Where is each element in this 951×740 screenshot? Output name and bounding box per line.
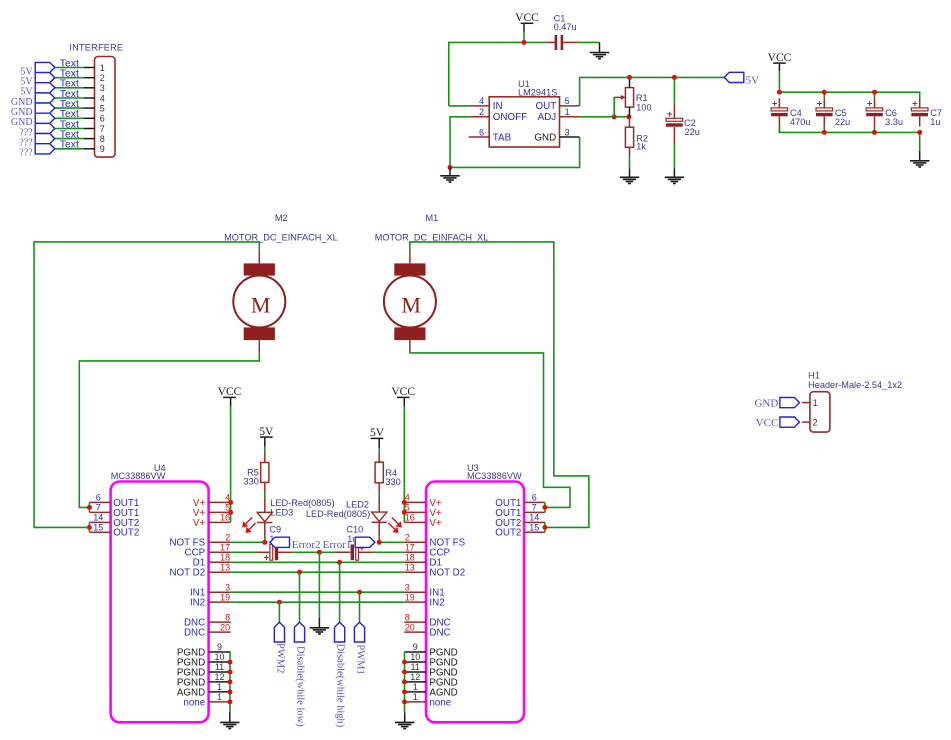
svg-text:4: 4: [100, 93, 105, 103]
svg-text:5V: 5V: [259, 426, 274, 438]
svg-text:20: 20: [220, 622, 230, 632]
R1 junction top: [627, 75, 632, 80]
H1 pin numbers: [813, 398, 818, 428]
svg-text:DNC: DNC: [429, 628, 450, 639]
junction PWM_DIS2 tap: [297, 570, 302, 575]
U3 PGND chain wire: [404, 652, 406, 712]
wire R5 to LED3: [264, 492, 266, 499]
svg-text:VCC: VCC: [756, 417, 779, 429]
wires to INTERFERE pins: [55, 68, 84, 149]
H1 pin stubs: [802, 403, 810, 423]
svg-text:GND: GND: [534, 132, 556, 143]
ground at U3 PGND: [395, 722, 414, 728]
net flag pin 1 net: [35, 62, 55, 72]
U3 OUT1 tie wire: [544, 502, 546, 512]
svg-text:DNC: DNC: [184, 628, 205, 639]
net flag pin 8 net: [35, 134, 55, 144]
op-amp U1 LM2941S body: [489, 97, 559, 147]
net flag pin 6 net: [35, 113, 55, 123]
wire M1 top to U3 OUT2: [410, 242, 589, 528]
junction C2 top: [672, 75, 677, 80]
svg-text:IN2: IN2: [190, 598, 205, 609]
svg-text:LM2941S: LM2941S: [518, 88, 557, 98]
wire ONOFF to gnd rail: [450, 117, 469, 168]
svg-text:3.3u: 3.3u: [885, 117, 903, 127]
junction PWM1 tap: [357, 590, 362, 595]
wire C6 bottom pin: [874, 127, 876, 133]
wire GND pin to gnd rail: [450, 137, 580, 167]
net flag PWM_DIS2: [294, 622, 304, 642]
junction V+ pin 5: [228, 510, 233, 515]
wire ADJ row: [580, 116, 629, 118]
svg-text:OUT: OUT: [536, 101, 557, 112]
svg-text:18: 18: [220, 552, 230, 562]
junction VCC/input: [522, 40, 527, 45]
wire PWM_DIS2: [299, 572, 301, 622]
svg-text:M: M: [401, 292, 421, 317]
wire C4 bottom pin: [778, 127, 780, 133]
junction ADJ wiper: [612, 114, 617, 119]
svg-text:IN: IN: [493, 101, 503, 112]
net flag pin 5 net: [35, 103, 55, 113]
svg-text:22u: 22u: [685, 127, 700, 137]
wire PWM2: [278, 602, 280, 622]
junction CCP/gnd tap: [317, 550, 322, 555]
U3 pin stubs: [404, 502, 426, 702]
svg-text:330: 330: [244, 476, 259, 486]
Text labels on nets: [60, 58, 79, 150]
wire LED2 to NOT_FS: [378, 538, 380, 543]
svg-text:PWM1: PWM1: [355, 644, 366, 674]
svg-text:7: 7: [532, 503, 537, 513]
svg-text:LED3: LED3: [270, 507, 293, 517]
U3 pin names: [429, 498, 465, 709]
wire input rail to C1 and IN: [449, 42, 546, 106]
bottom ground rail: [779, 127, 919, 152]
junction NOT_FS / Error2: [262, 540, 267, 545]
svg-text:19: 19: [220, 592, 230, 602]
capacitor C4: [771, 99, 788, 117]
U4 pin numbers: [214, 493, 230, 702]
wire LED3 to NOT_FS: [264, 538, 266, 543]
svg-text:14: 14: [529, 513, 539, 523]
svg-text:M1: M1: [426, 213, 439, 223]
svg-text:16: 16: [405, 513, 415, 523]
svg-text:ONOFF: ONOFF: [493, 112, 527, 123]
LED LED2: [372, 499, 387, 538]
svg-text:17: 17: [220, 543, 230, 553]
svg-text:17: 17: [405, 543, 415, 553]
net flag pin 2 net: [35, 73, 55, 83]
U1 pin names: [493, 101, 556, 143]
svg-text:Disable(while low): Disable(while low): [295, 646, 306, 727]
U4 PGND chain wire: [229, 652, 231, 712]
junction ADJ R1 bottom: [626, 114, 631, 119]
C6 pin wires: [874, 98, 876, 126]
svg-text:OUT2: OUT2: [113, 528, 139, 539]
svg-text:3: 3: [225, 582, 230, 592]
net NOT_FS right wire: [379, 541, 404, 543]
VCC stub: [230, 397, 232, 406]
svg-text:19: 19: [405, 592, 415, 602]
svg-text:2: 2: [479, 107, 484, 117]
C5 pin wires: [823, 98, 825, 126]
wire 5V to R4: [378, 448, 380, 451]
svg-text:5: 5: [565, 96, 570, 106]
svg-text:V+: V+: [193, 518, 206, 529]
svg-text:14: 14: [93, 513, 103, 523]
capacitor C7: [911, 99, 928, 117]
svg-text:22u: 22u: [835, 117, 850, 127]
VCC stub: [403, 397, 405, 406]
svg-text:INTERFERE: INTERFERE: [69, 43, 123, 53]
junction OUT2: [87, 525, 92, 530]
svg-text:Error1: Error1: [323, 539, 352, 551]
connector H1 body: [810, 392, 830, 432]
net IN2 wire: [231, 601, 405, 603]
U4 pin stubs: [209, 502, 231, 702]
net D1 wire: [231, 561, 405, 563]
5V stub: [264, 437, 266, 446]
wire 5V to R5: [264, 447, 266, 452]
wire wiper to ADJ: [614, 97, 616, 116]
wire to ground: [919, 151, 921, 161]
svg-text:none: none: [429, 697, 451, 708]
svg-text:VCC: VCC: [515, 12, 539, 24]
svg-text:3: 3: [565, 127, 570, 137]
VCC stub: [523, 23, 525, 31]
supply symbol 5V (R5): [259, 426, 274, 438]
motor M1 MOTOR_DC_EINFACH_XL: [384, 253, 436, 353]
net flag Error1: [355, 537, 375, 547]
U4 OUT pin numbers: [93, 493, 103, 533]
svg-text:+: +: [772, 99, 778, 110]
VCC top rail: [779, 92, 919, 98]
wire M2 bottom to U4 OUT1: [79, 352, 259, 507]
resistor R2: [625, 117, 633, 158]
motor M2 MOTOR_DC_EINFACH_XL: [233, 253, 285, 353]
junction PWM_DIS1 tap: [337, 560, 342, 565]
net flag VCC (H1): [780, 417, 800, 427]
svg-text:+: +: [867, 99, 873, 110]
svg-text:VCC: VCC: [218, 386, 242, 398]
svg-text:11: 11: [411, 662, 420, 672]
svg-text:6: 6: [479, 127, 484, 137]
svg-text:6: 6: [532, 493, 537, 503]
capacitor C2: [666, 109, 683, 127]
svg-text:2: 2: [405, 533, 410, 543]
svg-text:none: none: [183, 697, 205, 708]
junctions on VCC rail: [777, 90, 877, 95]
svg-text:Header-Male-2.54_1x2: Header-Male-2.54_1x2: [808, 380, 902, 390]
LED2 emission arrows: [388, 517, 401, 532]
wire VCC to U3 V+ pins: [403, 407, 405, 523]
svg-text:IN2: IN2: [429, 598, 444, 609]
net IN1 wire: [231, 591, 405, 593]
svg-text:???: ???: [19, 148, 33, 159]
svg-text:5: 5: [100, 103, 105, 113]
ground at cap bank: [910, 161, 929, 167]
junction V+ pin 5: [402, 510, 407, 515]
wire C5 top pin: [823, 92, 825, 98]
svg-text:2: 2: [100, 73, 105, 83]
svg-text:+: +: [667, 109, 673, 120]
svg-text:LED2: LED2: [346, 500, 369, 510]
junction gnd rail: [448, 165, 453, 170]
U3 pin numbers: [405, 493, 421, 702]
svg-text:13: 13: [405, 562, 415, 572]
net CCP left wire: [231, 551, 258, 553]
svg-text:+: +: [817, 99, 823, 110]
U3 OUT pin names: [495, 498, 521, 539]
net flag pin 9 net: [35, 144, 55, 154]
U3 OUT pin stubs: [524, 502, 545, 532]
capacitor C9: [258, 544, 292, 563]
U4 OUT1 tie wire: [88, 502, 90, 512]
svg-text:+: +: [264, 553, 270, 564]
svg-text:6: 6: [100, 114, 105, 124]
net flag pin 7 net: [35, 123, 55, 133]
ground mid (CCP caps): [310, 628, 329, 634]
svg-text:V+: V+: [429, 518, 442, 529]
svg-text:9: 9: [217, 642, 222, 652]
svg-text:20: 20: [405, 622, 415, 632]
svg-text:3: 3: [100, 83, 105, 93]
svg-text:15: 15: [529, 523, 539, 533]
svg-text:NOT D2: NOT D2: [169, 568, 205, 579]
wire IN pin: [449, 105, 469, 107]
svg-text:Text: Text: [60, 140, 79, 151]
ground at U4 PGND: [220, 722, 239, 728]
svg-text:7: 7: [100, 124, 105, 134]
U3 OUT pin numbers: [529, 493, 539, 533]
net flag Error2: [270, 537, 290, 547]
svg-text:2: 2: [813, 418, 818, 428]
svg-text:12: 12: [410, 672, 420, 682]
supply symbol VCC (cap bank): [768, 52, 792, 64]
net flag PWM1: [354, 622, 364, 642]
5V stub: [378, 438, 380, 448]
supply symbol VCC (above U4): [218, 386, 242, 398]
svg-text:470u: 470u: [790, 117, 810, 127]
svg-text:VCC: VCC: [768, 52, 792, 64]
svg-text:M: M: [251, 292, 271, 317]
svg-text:Disable(while high): Disable(while high): [335, 644, 346, 728]
wire C6 top pin: [874, 92, 876, 98]
svg-text:9: 9: [100, 144, 105, 154]
net NOT_FS left wire: [231, 541, 265, 543]
wire C2 to ground: [673, 127, 675, 143]
svg-text:MC33886VW: MC33886VW: [111, 471, 166, 481]
net name labels 5V/GND/???: [11, 66, 33, 158]
svg-text:TAB: TAB: [493, 132, 512, 143]
wire CCP cap node to ground: [318, 552, 320, 618]
svg-text:100: 100: [636, 102, 651, 112]
net NOT_D2 wire: [231, 571, 405, 573]
svg-text:15: 15: [93, 523, 103, 533]
C7 pin wires: [919, 98, 921, 126]
net flag pin 3 net: [35, 83, 55, 93]
wire VCC down: [778, 71, 780, 92]
junctions on ground rail: [822, 130, 922, 135]
svg-text:GND: GND: [754, 397, 778, 409]
VCC stub: [778, 63, 780, 71]
svg-text:18: 18: [405, 552, 415, 562]
svg-text:10: 10: [214, 652, 224, 662]
capacitor C10: [335, 543, 374, 560]
net flag GND (H1): [780, 398, 800, 408]
svg-text:12: 12: [214, 672, 224, 682]
svg-text:4: 4: [479, 96, 484, 106]
connector SV1 INTERFERE: [95, 57, 116, 158]
svg-text:+: +: [912, 99, 918, 110]
net flag PWM2: [274, 622, 284, 642]
U4 OUT pin names: [113, 498, 139, 539]
svg-text:3: 3: [405, 582, 410, 592]
capacitor C5: [816, 99, 833, 117]
svg-text:1: 1: [217, 692, 222, 702]
svg-text:1: 1: [100, 63, 105, 73]
wire OUT to 5V rail: [580, 77, 725, 106]
wire R2 to ground: [629, 158, 631, 169]
svg-text:2: 2: [225, 533, 230, 543]
svg-text:MC33886VW: MC33886VW: [467, 471, 522, 481]
svg-text:1: 1: [413, 692, 418, 702]
junction PWM2 tap: [277, 600, 282, 605]
supply symbol VCC (above U3): [391, 386, 415, 398]
net flag PWM_DIS1: [335, 622, 345, 642]
junction V+ pin 4: [228, 500, 233, 505]
transistor-driver IC U3 MC33886VW body: [426, 482, 524, 723]
U1 pin stubs: [469, 106, 580, 137]
svg-text:Error2: Error2: [292, 539, 321, 551]
svg-text:6: 6: [96, 493, 101, 503]
junction OUT1: [542, 505, 547, 510]
net flag pin 4 net: [35, 93, 55, 103]
U3 OUT2 tie wire: [544, 522, 546, 532]
wire PWM1: [359, 592, 361, 622]
svg-text:NOT D2: NOT D2: [429, 568, 465, 579]
svg-text:ADJ: ADJ: [538, 112, 557, 123]
svg-text:16: 16: [220, 513, 230, 523]
wire VCC to input net: [523, 32, 525, 43]
LED3 emission arrows: [243, 517, 256, 532]
INTERFERE pin stubs (black): [84, 68, 95, 149]
svg-text:1u: 1u: [930, 117, 940, 127]
svg-text:1: 1: [813, 398, 818, 408]
U1 pin numbers: [479, 96, 570, 137]
U4 pin names: [169, 498, 205, 709]
svg-text:OUT2: OUT2: [495, 528, 521, 539]
svg-text:9: 9: [413, 642, 418, 652]
wire 5V rail to C2: [673, 77, 675, 102]
resistor R1 (trimmer): [617, 77, 634, 116]
capacitor C1: [546, 35, 578, 50]
svg-text:5V: 5V: [370, 427, 385, 439]
junction OUT1: [87, 505, 92, 510]
svg-text:C9: C9: [269, 524, 281, 534]
svg-text:LED-Red(0805): LED-Red(0805): [306, 509, 370, 519]
svg-text:1: 1: [565, 107, 570, 117]
svg-text:1: 1: [413, 682, 418, 692]
svg-text:8: 8: [225, 612, 230, 622]
ground at R2: [620, 177, 639, 183]
supply symbol 5V (R4): [370, 427, 385, 439]
wire M1 bottom to U3 OUT1: [410, 352, 570, 507]
resistor R4: [375, 452, 383, 492]
supply symbol VCC (input): [515, 12, 539, 24]
svg-text:M2: M2: [275, 213, 288, 223]
net CCP mid wires: [291, 551, 335, 553]
wire VCC to U4 V+ pins: [230, 407, 232, 523]
capacitor C6: [866, 99, 883, 117]
junction OUT2: [542, 525, 547, 530]
wire PWM_DIS1: [339, 562, 341, 622]
svg-text:7: 7: [96, 503, 101, 513]
ground at C1: [590, 53, 609, 59]
wire C5 bottom pin: [823, 127, 825, 133]
U4 OUT2 tie wire: [88, 522, 90, 532]
svg-text:330: 330: [385, 477, 400, 487]
resistor R5: [261, 451, 269, 491]
svg-text:0.47u: 0.47u: [554, 22, 577, 32]
net CCP right wire: [374, 551, 404, 553]
ground at U1: [440, 176, 459, 182]
svg-text:11: 11: [215, 662, 224, 672]
C4 pin wires: [778, 98, 780, 126]
net flag 5V output: [724, 72, 744, 82]
svg-text:1k: 1k: [636, 142, 646, 152]
LED LED3: [257, 499, 272, 538]
svg-text:10: 10: [410, 652, 420, 662]
ground at C2: [665, 177, 684, 183]
wire M2 top to U4 OUT2: [34, 242, 259, 528]
svg-text:13: 13: [220, 562, 230, 572]
wire R4 to LED2: [378, 492, 380, 499]
svg-text:1: 1: [217, 682, 222, 692]
svg-text:8: 8: [100, 134, 105, 144]
svg-text:5V: 5V: [746, 75, 760, 87]
svg-text:VCC: VCC: [391, 386, 415, 398]
svg-text:8: 8: [405, 612, 410, 622]
INTERFERE pin numbers 1-9: [100, 63, 105, 154]
wire C1 to ground: [578, 41, 600, 43]
U4 OUT pin stubs: [89, 502, 110, 532]
transistor-driver IC U4 MC33886VW body: [111, 482, 209, 723]
junction V+ pin 4: [402, 500, 407, 505]
junction NOT_FS / Error1: [377, 540, 382, 545]
svg-text:PWM2: PWM2: [275, 643, 286, 673]
